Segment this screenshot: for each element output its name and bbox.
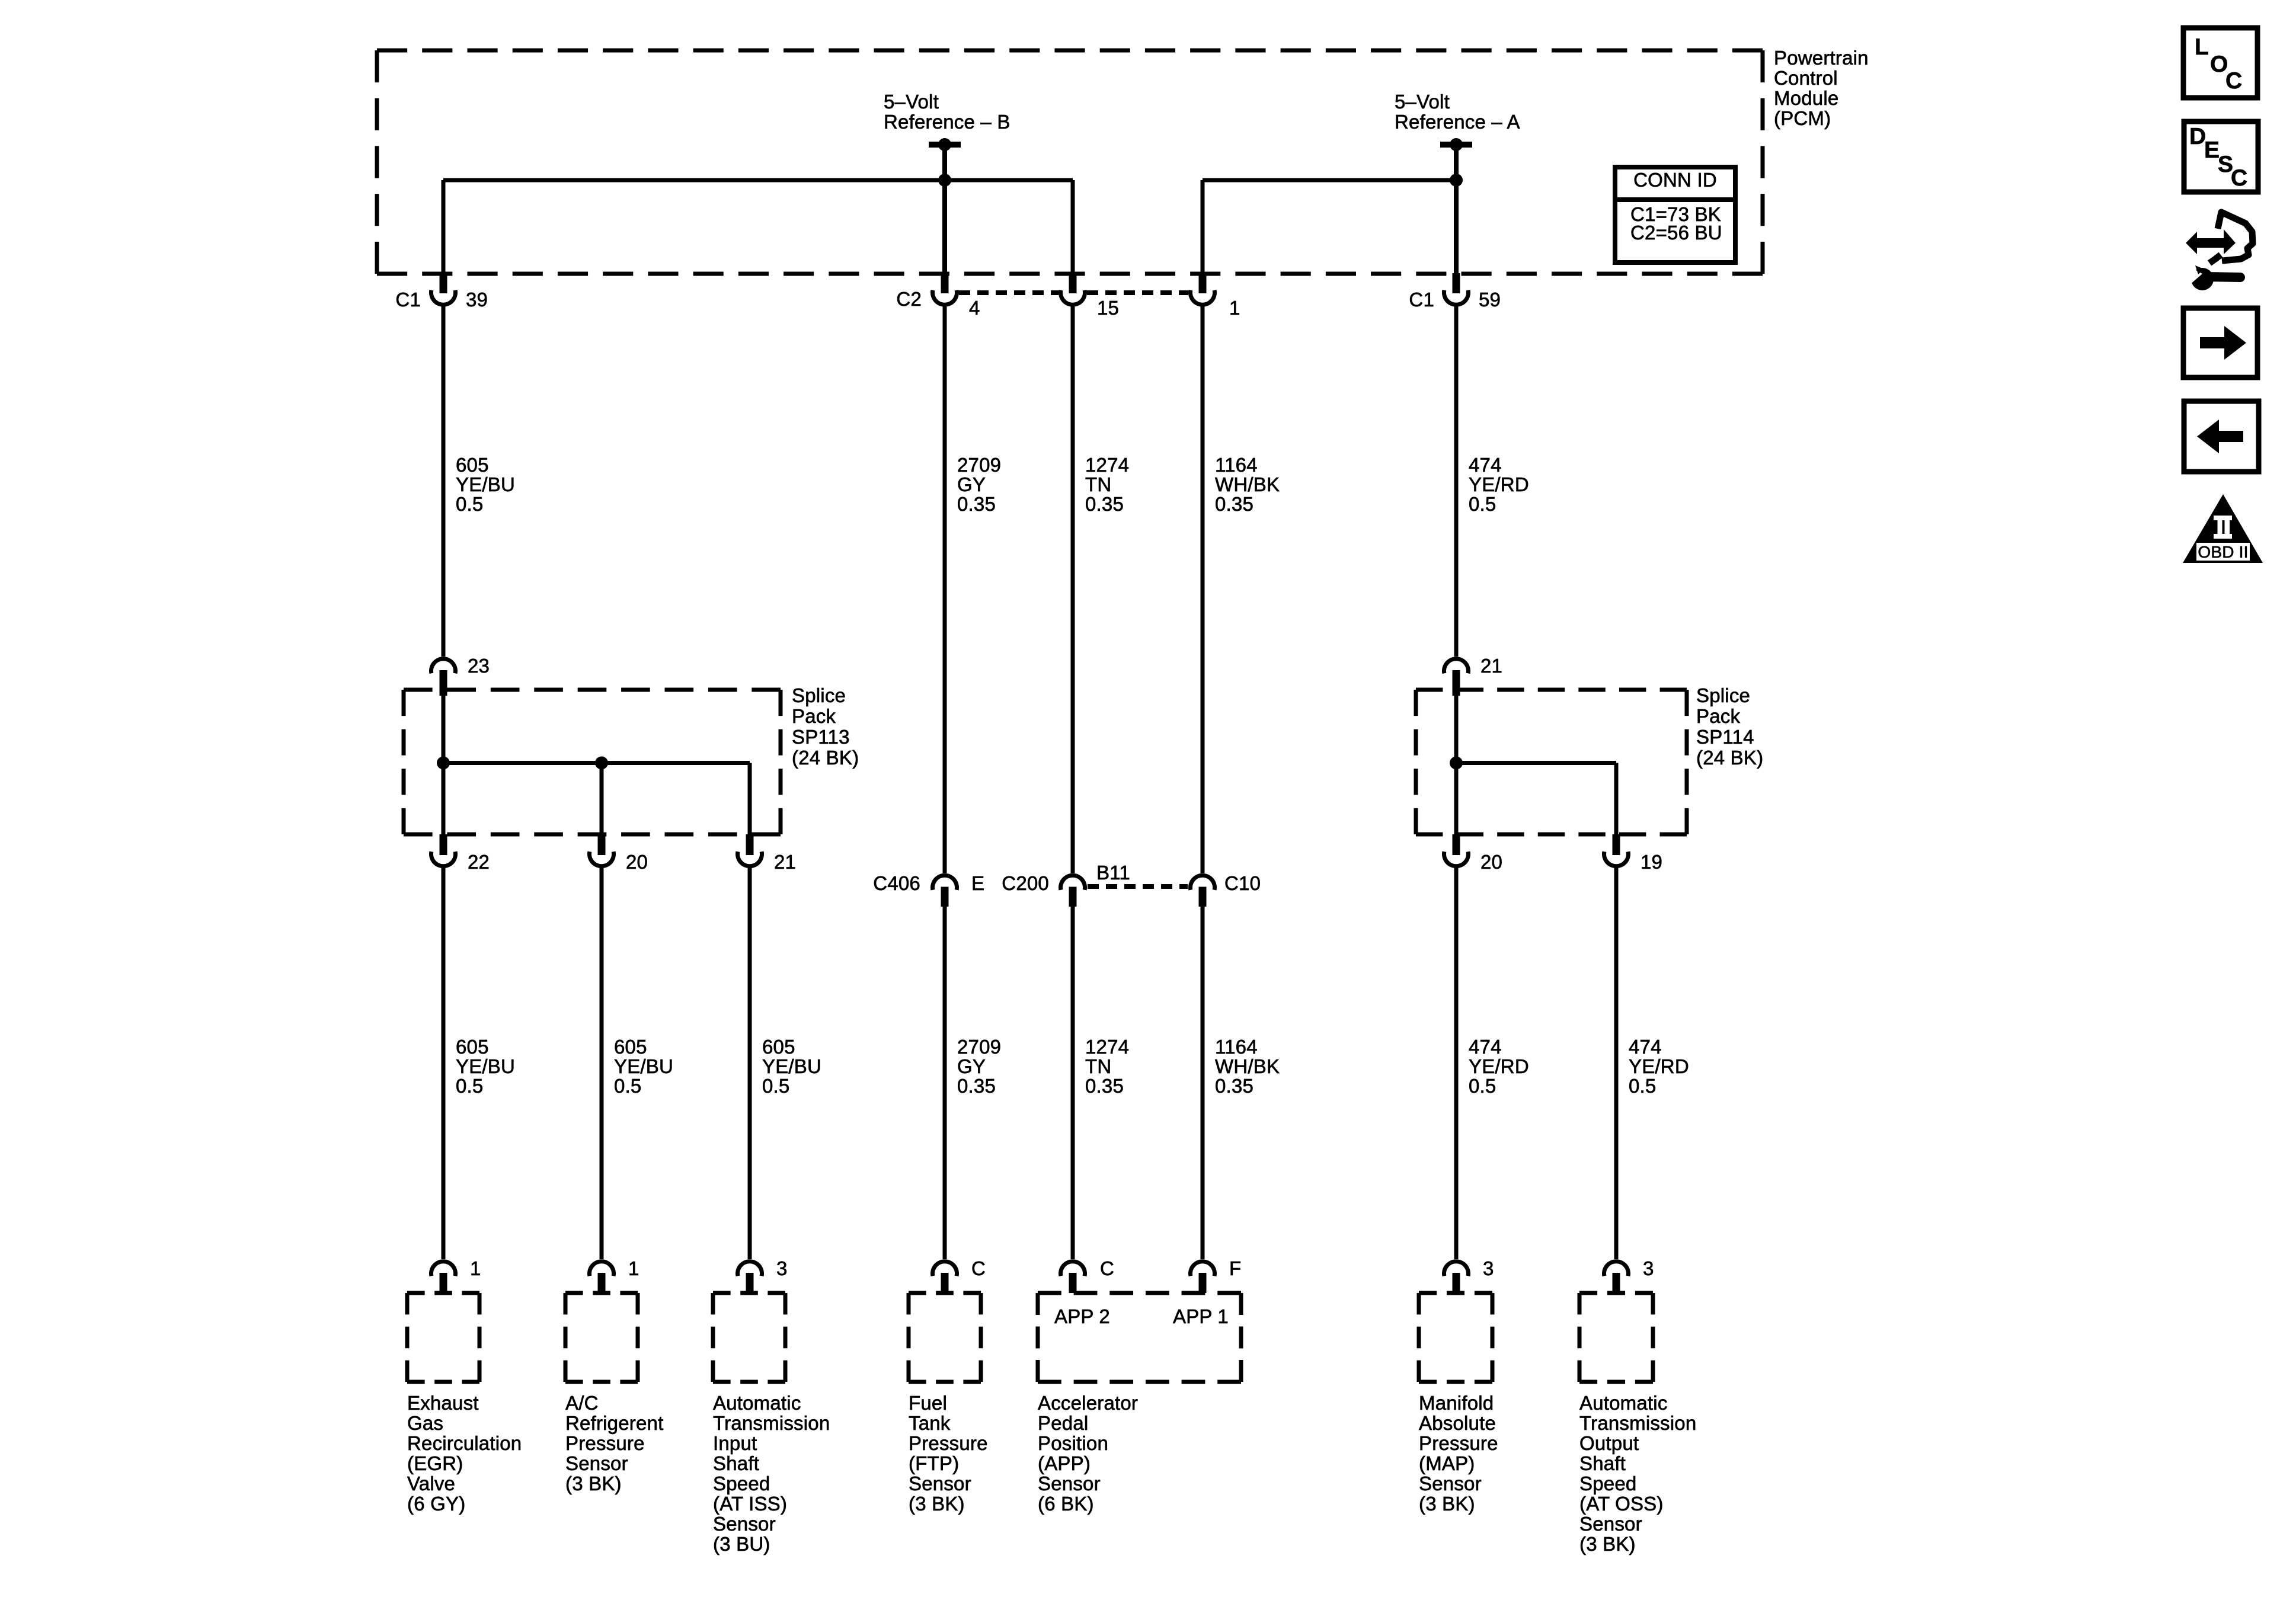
svg-text:Transmission: Transmission <box>713 1412 830 1434</box>
wire 474 YE/RD SP114-20 to MAP <box>1454 868 1459 1259</box>
wire SP114 drop to pin 19 <box>1614 763 1619 835</box>
label Splice Pack SP113 (24 BK) <box>792 684 859 769</box>
junction dot SP113 at pin 20 branch <box>595 757 608 770</box>
label wire 1274 TN 0.35 (upper) <box>1085 454 1129 515</box>
svg-text:(3 BK): (3 BK) <box>909 1493 965 1515</box>
junction dot SP113 at pin 23 branch <box>437 757 450 770</box>
svg-text:2709: 2709 <box>957 1036 1001 1058</box>
label wire 474 YE/RD 0.5 (lower 1) <box>1469 1036 1529 1097</box>
splice pack SP113 dashed box <box>404 690 781 834</box>
svg-text:2709: 2709 <box>957 454 1001 476</box>
label wire 1164 WH/BK 0.35 (upper) <box>1215 454 1280 515</box>
svg-text:C1: C1 <box>395 289 421 311</box>
svg-text:Splice: Splice <box>792 684 846 706</box>
svg-text:C10: C10 <box>1224 872 1261 894</box>
svg-text:E: E <box>971 872 984 894</box>
svg-text:C2=56 BU: C2=56 BU <box>1630 222 1722 244</box>
svg-text:605: 605 <box>456 454 489 476</box>
svg-text:(3 BK): (3 BK) <box>565 1473 622 1494</box>
component AT ISS Sensor with connector pin 3 <box>713 1257 830 1555</box>
svg-text:(FTP): (FTP) <box>909 1452 959 1474</box>
svg-text:(AT OSS): (AT OSS) <box>1579 1493 1664 1515</box>
icon OBD II triangle <box>2183 494 2263 563</box>
svg-text:C200: C200 <box>1002 872 1049 894</box>
svg-text:(3 BK): (3 BK) <box>1419 1493 1475 1515</box>
svg-text:0.5: 0.5 <box>1469 493 1496 515</box>
label Splice Pack SP114 (24 BK) <box>1696 684 1763 769</box>
icon service information (arrows part outline and wrench) <box>2185 212 2253 290</box>
svg-text:C1: C1 <box>1409 289 1434 311</box>
svg-text:Powertrain: Powertrain <box>1774 47 1869 69</box>
svg-text:(3 BK): (3 BK) <box>1579 1533 1636 1555</box>
svg-text:1274: 1274 <box>1085 454 1129 476</box>
svg-text:1164: 1164 <box>1215 1036 1258 1058</box>
svg-text:0.5: 0.5 <box>456 493 483 515</box>
svg-text:Automatic: Automatic <box>1579 1392 1668 1414</box>
component APP Sensor connector pin C (APP 2) <box>1061 1257 1115 1293</box>
svg-text:APP 1: APP 1 <box>1173 1305 1229 1327</box>
svg-text:CONN ID: CONN ID <box>1633 169 1717 191</box>
wire SP113 drop to pin 20 <box>600 763 604 835</box>
connector pin 15 <box>1060 273 1119 319</box>
svg-text:19: 19 <box>1641 851 1662 873</box>
svg-text:3: 3 <box>776 1257 788 1279</box>
component MAP Sensor with connector pin 3 <box>1419 1257 1498 1515</box>
svg-text:Automatic: Automatic <box>713 1392 801 1414</box>
splice pack SP114 dashed box <box>1416 690 1687 834</box>
wire PCM drop to pin 15 <box>1071 180 1075 273</box>
svg-text:YE/RD: YE/RD <box>1469 473 1529 495</box>
svg-text:4: 4 <box>969 297 980 319</box>
svg-text:Valve: Valve <box>407 1473 455 1494</box>
svg-text:B11: B11 <box>1096 862 1130 884</box>
svg-text:474: 474 <box>1629 1036 1662 1058</box>
wire PCM drop to pin 1 <box>1201 180 1205 273</box>
wire SP114 internal bus <box>1456 761 1616 765</box>
connector SP113 pin 22 <box>431 834 490 873</box>
svg-text:0.35: 0.35 <box>957 1075 996 1097</box>
icon forward arrow box <box>2183 308 2257 377</box>
svg-text:15: 15 <box>1097 297 1119 319</box>
wire C406 drop <box>943 907 947 1259</box>
svg-text:(APP): (APP) <box>1038 1452 1091 1474</box>
svg-text:TN: TN <box>1085 473 1111 495</box>
svg-text:20: 20 <box>626 851 648 873</box>
label Powertrain Control Module (PCM) <box>1774 47 1869 129</box>
label wire 2709 GY 0.35 (lower) <box>957 1036 1001 1097</box>
svg-text:Shaft: Shaft <box>1579 1452 1626 1474</box>
svg-text:Sensor: Sensor <box>1038 1473 1101 1494</box>
svg-text:APP 2: APP 2 <box>1054 1305 1110 1327</box>
svg-text:0.35: 0.35 <box>1215 493 1253 515</box>
svg-text:Pressure: Pressure <box>1419 1432 1498 1454</box>
svg-text:(AT ISS): (AT ISS) <box>713 1493 787 1515</box>
svg-text:A/C: A/C <box>565 1392 599 1414</box>
svg-text:Sensor: Sensor <box>1419 1473 1482 1494</box>
svg-text:Accelerator: Accelerator <box>1038 1392 1138 1414</box>
svg-text:(6 BK): (6 BK) <box>1038 1493 1094 1515</box>
component APP Sensor dashed box <box>1038 1293 1241 1382</box>
component A/C Refrigerent Pressure Sensor with connector pin 1 <box>565 1257 663 1494</box>
svg-text:YE/RD: YE/RD <box>1629 1055 1689 1077</box>
component AT OSS Sensor with connector pin 3 <box>1579 1257 1696 1555</box>
wire PCM bus B horizontal <box>443 178 1073 183</box>
svg-text:474: 474 <box>1469 454 1502 476</box>
svg-text:Pedal: Pedal <box>1038 1412 1088 1434</box>
svg-text:59: 59 <box>1479 289 1501 311</box>
svg-text:Refrigerent: Refrigerent <box>565 1412 663 1434</box>
wire 474 YE/RD segment C1-59 to SP114 <box>1454 305 1459 657</box>
wire 605 YE/BU SP113-21 to ATISS <box>748 868 752 1259</box>
svg-text:(24 BK): (24 BK) <box>792 747 859 769</box>
svg-text:1164: 1164 <box>1215 454 1258 476</box>
svg-text:1274: 1274 <box>1085 1036 1129 1058</box>
svg-text:GY: GY <box>957 1055 986 1077</box>
connector SP114 pin 20 <box>1444 834 1503 873</box>
svg-text:Pressure: Pressure <box>565 1432 645 1454</box>
svg-text:0.5: 0.5 <box>762 1075 789 1097</box>
svg-text:Pack: Pack <box>1696 705 1740 727</box>
label wire 1274 TN 0.35 (lower) <box>1085 1036 1129 1097</box>
label wire 474 YE/RD 0.5 (upper) <box>1469 454 1529 515</box>
svg-text:Reference – B: Reference – B <box>884 111 1011 133</box>
wire SP113 drop to pin 21 <box>748 763 752 835</box>
wire 2709 GY segment C2-4 to C406 <box>943 305 947 873</box>
wire 5V ref A stem <box>1454 145 1459 273</box>
svg-text:WH/BK: WH/BK <box>1215 473 1280 495</box>
svg-text:YE/BU: YE/BU <box>456 473 515 495</box>
svg-text:(MAP): (MAP) <box>1419 1452 1475 1474</box>
svg-text:L: L <box>2195 34 2209 60</box>
svg-text:YE/RD: YE/RD <box>1469 1055 1529 1077</box>
svg-text:605: 605 <box>456 1036 489 1058</box>
svg-text:C: C <box>971 1257 986 1279</box>
connector C2 pin 4 <box>896 273 980 319</box>
svg-text:Transmission: Transmission <box>1579 1412 1696 1434</box>
svg-text:0.5: 0.5 <box>1469 1075 1496 1097</box>
wire 1274 TN segment 15 to C200 <box>1071 305 1075 873</box>
svg-text:C406: C406 <box>873 872 920 894</box>
inline connector dotted link C200 to C10 <box>1088 884 1188 889</box>
svg-text:39: 39 <box>466 289 488 311</box>
component EGR Valve with connector pin 1 <box>407 1257 522 1515</box>
svg-text:Sensor: Sensor <box>713 1513 776 1535</box>
svg-text:OBD II: OBD II <box>2198 543 2248 561</box>
svg-text:0.35: 0.35 <box>1215 1075 1253 1097</box>
svg-text:Pack: Pack <box>792 705 836 727</box>
label 5-Volt Reference - B <box>884 91 1011 133</box>
svg-text:Sensor: Sensor <box>565 1452 628 1474</box>
connector C200 pin B11 <box>1002 862 1130 907</box>
svg-text:Absolute: Absolute <box>1419 1412 1496 1434</box>
CONN ID table <box>1615 167 1735 263</box>
wire 605 YE/BU SP113-22 to EGR <box>442 868 446 1259</box>
voltage source 5-Volt Reference B symbol <box>929 138 961 151</box>
svg-text:0.35: 0.35 <box>1085 1075 1124 1097</box>
svg-text:474: 474 <box>1469 1036 1502 1058</box>
svg-text:21: 21 <box>1480 655 1502 677</box>
svg-text:605: 605 <box>762 1036 795 1058</box>
connector SP113 pin 20 <box>590 834 648 873</box>
svg-text:Speed: Speed <box>713 1473 770 1494</box>
svg-text:Tank: Tank <box>909 1412 951 1434</box>
svg-text:23: 23 <box>468 655 490 677</box>
svg-text:Shaft: Shaft <box>713 1452 759 1474</box>
svg-text:C: C <box>1100 1257 1114 1279</box>
label wire 2709 GY 0.35 (upper) <box>957 454 1001 515</box>
svg-text:Speed: Speed <box>1579 1473 1636 1494</box>
svg-text:Fuel: Fuel <box>909 1392 947 1414</box>
voltage source 5-Volt Reference A symbol <box>1440 138 1472 151</box>
connector pin 1 <box>1191 273 1240 319</box>
svg-text:22: 22 <box>468 851 490 873</box>
svg-text:YE/BU: YE/BU <box>614 1055 673 1077</box>
label wire 605 YE/BU 0.5 (lower 2) <box>614 1036 673 1097</box>
wire C10 drop <box>1201 907 1205 1259</box>
module PCM (Powertrain Control Module) dashed box <box>377 50 1763 274</box>
svg-text:Input: Input <box>713 1432 757 1454</box>
svg-text:(24 BK): (24 BK) <box>1696 747 1763 769</box>
svg-text:C: C <box>2231 165 2247 191</box>
connector SP114 pin 21 <box>1444 655 1503 696</box>
svg-text:Exhaust: Exhaust <box>407 1392 479 1414</box>
connector C1 pin 59 <box>1409 273 1501 311</box>
wire C200 drop <box>1071 907 1075 1259</box>
svg-text:0.5: 0.5 <box>614 1075 641 1097</box>
svg-text:Sensor: Sensor <box>909 1473 971 1494</box>
label wire 605 YE/BU 0.5 (lower 3) <box>762 1036 821 1097</box>
label wire 1164 WH/BK 0.35 (lower) <box>1215 1036 1280 1097</box>
icon LOC box <box>2183 28 2257 98</box>
svg-text:1: 1 <box>1229 297 1240 319</box>
svg-text:605: 605 <box>614 1036 647 1058</box>
label wire 605 YE/BU 0.5 (lower 1) <box>456 1036 515 1097</box>
svg-text:0.35: 0.35 <box>1085 493 1124 515</box>
svg-text:(PCM): (PCM) <box>1774 107 1831 129</box>
connector C10 <box>1191 872 1261 907</box>
wire 605 YE/BU segment C1-39 to SP113 <box>442 305 446 657</box>
svg-text:Control: Control <box>1774 67 1838 89</box>
wire SP114 internal vertical <box>1454 696 1459 834</box>
svg-text:0.5: 0.5 <box>1629 1075 1656 1097</box>
svg-text:Recirculation: Recirculation <box>407 1432 522 1454</box>
svg-text:Reference – A: Reference – A <box>1395 111 1520 133</box>
inline connector dotted link 15 to 1 <box>1087 290 1188 295</box>
svg-text:20: 20 <box>1480 851 1502 873</box>
label Accelerator Pedal Position (APP) Sensor (6 BK) <box>1038 1392 1138 1515</box>
svg-text:3: 3 <box>1643 1257 1654 1279</box>
connector SP114 pin 19 <box>1604 834 1663 873</box>
svg-text:1: 1 <box>470 1257 481 1279</box>
label wire 605 YE/BU 0.5 (upper) <box>456 454 515 515</box>
svg-text:1: 1 <box>628 1257 639 1279</box>
junction dot bus A at 5V reference <box>1450 174 1463 187</box>
svg-text:Output: Output <box>1579 1432 1639 1454</box>
label 5-Volt Reference - A <box>1395 91 1520 133</box>
svg-text:5–Volt: 5–Volt <box>884 91 939 113</box>
svg-text:Splice: Splice <box>1696 684 1750 706</box>
svg-text:(EGR): (EGR) <box>407 1452 463 1474</box>
wire 605 YE/BU SP113-20 to AC sensor <box>600 868 604 1259</box>
svg-text:YE/BU: YE/BU <box>456 1055 515 1077</box>
svg-text:F: F <box>1229 1257 1241 1279</box>
inline connector dotted link C2-4 to 15 <box>959 290 1059 295</box>
svg-text:Module: Module <box>1774 87 1838 109</box>
component FTP Sensor with connector pin C <box>909 1257 988 1515</box>
connector C1 pin 39 <box>395 273 488 311</box>
connector SP113 pin 21 <box>738 834 797 873</box>
svg-text:TN: TN <box>1085 1055 1111 1077</box>
wire PCM bus A horizontal <box>1203 178 1456 183</box>
svg-text:3: 3 <box>1483 1257 1494 1279</box>
svg-text:0.5: 0.5 <box>456 1075 483 1097</box>
icon DESC box <box>2184 121 2258 192</box>
svg-text:Pressure: Pressure <box>909 1432 988 1454</box>
connector C406 pin E <box>873 872 984 907</box>
wire SP113 internal vertical <box>442 696 446 834</box>
svg-text:Position: Position <box>1038 1432 1108 1454</box>
svg-text:Sensor: Sensor <box>1579 1513 1642 1535</box>
wire 474 YE/RD SP114-19 to ATOSS <box>1614 868 1619 1259</box>
label wire 474 YE/RD 0.5 (lower 2) <box>1629 1036 1689 1097</box>
svg-text:SP114: SP114 <box>1696 726 1754 748</box>
component APP Sensor connector pin F (APP 1) <box>1191 1257 1242 1293</box>
svg-text:GY: GY <box>957 473 986 495</box>
svg-text:Gas: Gas <box>407 1412 443 1434</box>
svg-text:Manifold: Manifold <box>1419 1392 1494 1414</box>
svg-text:C2: C2 <box>896 288 922 310</box>
wire SP113 internal bus <box>443 761 750 765</box>
svg-text:21: 21 <box>774 851 796 873</box>
connector SP113 pin 23 <box>431 655 490 696</box>
wire PCM drop to pin 39 <box>442 180 446 273</box>
svg-text:C: C <box>2225 68 2242 94</box>
svg-text:0.35: 0.35 <box>957 493 996 515</box>
icon back arrow box <box>2184 401 2259 472</box>
wire 5V ref B stem <box>942 145 947 273</box>
svg-text:YE/BU: YE/BU <box>762 1055 821 1077</box>
svg-text:5–Volt: 5–Volt <box>1395 91 1450 113</box>
svg-text:(3 BU): (3 BU) <box>713 1533 770 1555</box>
svg-text:WH/BK: WH/BK <box>1215 1055 1280 1077</box>
wire 1164 WH/BK segment 1 to C10 <box>1201 305 1205 873</box>
junction dot SP114 at pin 21 branch <box>1450 757 1463 770</box>
svg-text:(6 GY): (6 GY) <box>407 1493 465 1515</box>
svg-text:SP113: SP113 <box>792 726 850 748</box>
junction dot bus B at 5V reference <box>938 174 951 187</box>
